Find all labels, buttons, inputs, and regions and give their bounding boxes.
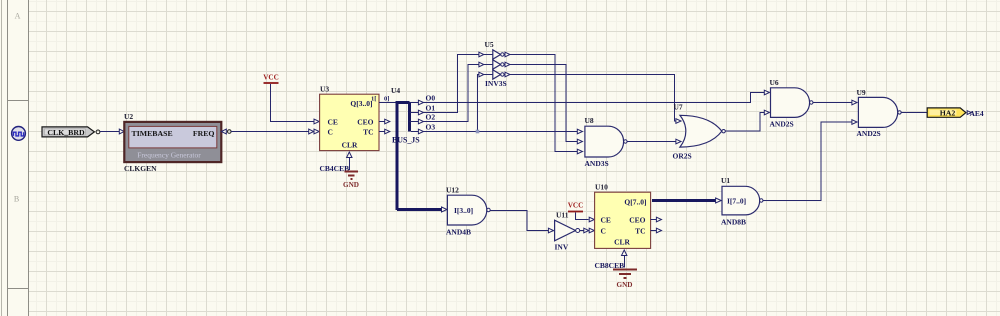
- ground GND under U10: [613, 270, 637, 290]
- ripper arrow O0: [418, 100, 423, 105]
- wire O0 to U6 input A: [424, 93, 765, 103]
- svg-text:Q[7..0]: Q[7..0]: [624, 198, 646, 207]
- svg-text:TIMEBASE: TIMEBASE: [132, 129, 173, 138]
- svg-text:Frequency Generator: Frequency Generator: [137, 150, 201, 159]
- svg-text:GND: GND: [617, 281, 633, 289]
- zone divider bottom: [8, 288, 29, 290]
- wire U5 inv2 out to U8 input B: [510, 65, 577, 142]
- svg-text:CE: CE: [328, 117, 338, 126]
- svg-text:CLR: CLR: [614, 237, 630, 246]
- wire FREQ to U3 C: [231, 131, 308, 133]
- ripper arrow O3: [418, 129, 423, 134]
- bus input arrow U1: [716, 198, 722, 203]
- svg-text:VCC: VCC: [263, 73, 279, 81]
- svg-text:C: C: [601, 226, 606, 235]
- wire O3 to U8 input A: [424, 131, 578, 133]
- clock source icon: [12, 126, 26, 140]
- VCC power symbol (left): [263, 73, 279, 83]
- pin stub U10 CLR with edge triangle: [622, 250, 627, 256]
- bus input arrow U12: [442, 207, 448, 212]
- svg-text:U4: U4: [391, 86, 400, 95]
- svg-text:GND: GND: [343, 181, 359, 189]
- pin arrows U10 C clock input: [584, 228, 595, 233]
- or gate U7 OR2S: [676, 115, 725, 147]
- and gate U1 AND8B: [722, 186, 763, 215]
- pin stub U10 TC: [651, 230, 657, 232]
- sheet border outer edge: [1, 0, 3, 316]
- svg-text:U8: U8: [585, 116, 594, 125]
- wire U12 out to U11 input: [490, 211, 548, 231]
- svg-text:U11: U11: [556, 211, 569, 220]
- pin stub U3 TC: [379, 131, 385, 133]
- svg-text:VCC: VCC: [568, 202, 584, 210]
- svg-text:I[7..0]: I[7..0]: [727, 197, 746, 206]
- svg-text:FREQ: FREQ: [193, 129, 215, 138]
- pin stub U3 CEO: [379, 121, 385, 123]
- svg-text:U2: U2: [124, 112, 133, 121]
- svg-text:0]: 0]: [384, 95, 389, 102]
- ripper arrow O2: [418, 119, 423, 124]
- svg-text:C: C: [328, 128, 333, 137]
- svg-text:CEO: CEO: [357, 117, 373, 126]
- svg-text:O3: O3: [426, 123, 436, 132]
- port HA2: [927, 108, 971, 118]
- and gate U8 AND3S: [577, 126, 627, 157]
- frequency generator U2: [124, 122, 221, 162]
- svg-text:U7: U7: [674, 103, 683, 112]
- VCC power symbol (right): [568, 202, 584, 212]
- svg-text:U3: U3: [320, 84, 329, 93]
- svg-text:A: A: [15, 12, 21, 21]
- bus U10 Q[7..0] to U1 thick: [652, 199, 716, 202]
- svg-text:AND8B: AND8B: [721, 218, 746, 227]
- wire U11 out to U10 C: [580, 230, 584, 232]
- svg-text:INV3S: INV3S: [485, 79, 507, 88]
- svg-text:U1: U1: [721, 176, 730, 185]
- wire U7 out to U6 input B: [725, 113, 764, 132]
- bus ripper stubs: [410, 103, 419, 132]
- svg-text:CLKGEN: CLKGEN: [124, 164, 157, 173]
- wire U6 out to U9 input A: [813, 102, 852, 104]
- svg-text:CEO: CEO: [629, 215, 645, 224]
- wire O1 to U5 inverter 1 input: [424, 55, 493, 113]
- wire VCC to U10 CE: [576, 212, 589, 219]
- svg-text:AND2S: AND2S: [857, 129, 881, 138]
- pin arrows U3 C clock input: [309, 129, 320, 134]
- svg-text:BUS_JS: BUS_JS: [392, 136, 420, 145]
- svg-text:AE4: AE4: [970, 109, 984, 118]
- svg-text:HA2: HA2: [940, 108, 956, 117]
- and gate U9 AND2S: [852, 97, 901, 127]
- wire U8 out to U7 input B: [627, 141, 676, 143]
- svg-text:U5: U5: [485, 40, 494, 49]
- ripper arrow O1: [418, 110, 423, 115]
- bus BUS_JS thick: [396, 101, 442, 210]
- pin arrow U2 TIMEBASE input: [119, 129, 124, 134]
- svg-text:U6: U6: [770, 78, 779, 87]
- wire U5 inv3 out to U7 input A: [510, 75, 676, 122]
- wire O2 to U5 inverter 2 input: [424, 65, 493, 122]
- svg-text:O0: O0: [426, 94, 436, 103]
- svg-text:TC: TC: [363, 128, 373, 137]
- svg-text:O2: O2: [426, 113, 436, 122]
- port CLK_BRD: [42, 127, 100, 137]
- pin stub U10 CEO: [651, 219, 657, 221]
- wire port to U2: [100, 131, 119, 133]
- svg-text:TC: TC: [635, 226, 645, 235]
- and gate U12 AND4B: [447, 195, 490, 225]
- svg-text:Q[3..0]: Q[3..0]: [350, 99, 372, 108]
- counter U3 CB4CEB: [320, 94, 379, 150]
- svg-text:INV: INV: [555, 243, 569, 252]
- wire U3 Q pin to bus: [379, 102, 396, 104]
- svg-text:CE: CE: [601, 215, 611, 224]
- zone divider A/B: [8, 100, 29, 102]
- pin arrow U3 CE: [314, 119, 319, 124]
- svg-text:U10: U10: [595, 182, 608, 191]
- svg-text:1[: 1[: [371, 95, 376, 102]
- pin arrow U11 input: [548, 228, 553, 233]
- sheet border inner lines: [8, 0, 29, 316]
- pin stub U3 CLR with edge triangle: [347, 152, 352, 158]
- svg-text:CLK_BRD: CLK_BRD: [47, 128, 85, 137]
- wire VCC to U3 CE: [271, 84, 314, 122]
- svg-text:AND3S: AND3S: [585, 159, 609, 168]
- wire U5 inv1 out to U8 input C: [510, 55, 577, 152]
- svg-text:O1: O1: [426, 104, 436, 113]
- svg-text:AND2S: AND2S: [770, 120, 794, 129]
- svg-text:AND4B: AND4B: [446, 228, 471, 237]
- wire U9 out to port HA2: [901, 112, 927, 114]
- svg-text:B: B: [14, 195, 19, 204]
- wire junction riser to U5 inverter 3 input: [478, 75, 493, 132]
- svg-text:U9: U9: [857, 88, 866, 97]
- inverter bank U5 INV3S: [479, 50, 510, 79]
- and gate U6 AND2S: [764, 88, 813, 118]
- junction dot on O3: [476, 130, 480, 134]
- svg-text:CLR: CLR: [342, 140, 358, 149]
- inverter U11 INV: [555, 220, 580, 241]
- ground GND under U3: [343, 172, 359, 190]
- svg-text:OR2S: OR2S: [673, 152, 692, 161]
- wire U1 out to U9 input B: [763, 122, 852, 201]
- svg-text:U12: U12: [446, 185, 459, 194]
- counter U10 CB8CEB: [595, 192, 651, 248]
- pin marks U2 FREQ output: [221, 129, 226, 134]
- pin arrow U10 CE: [589, 217, 594, 222]
- svg-text:I[3..0]: I[3..0]: [454, 206, 473, 215]
